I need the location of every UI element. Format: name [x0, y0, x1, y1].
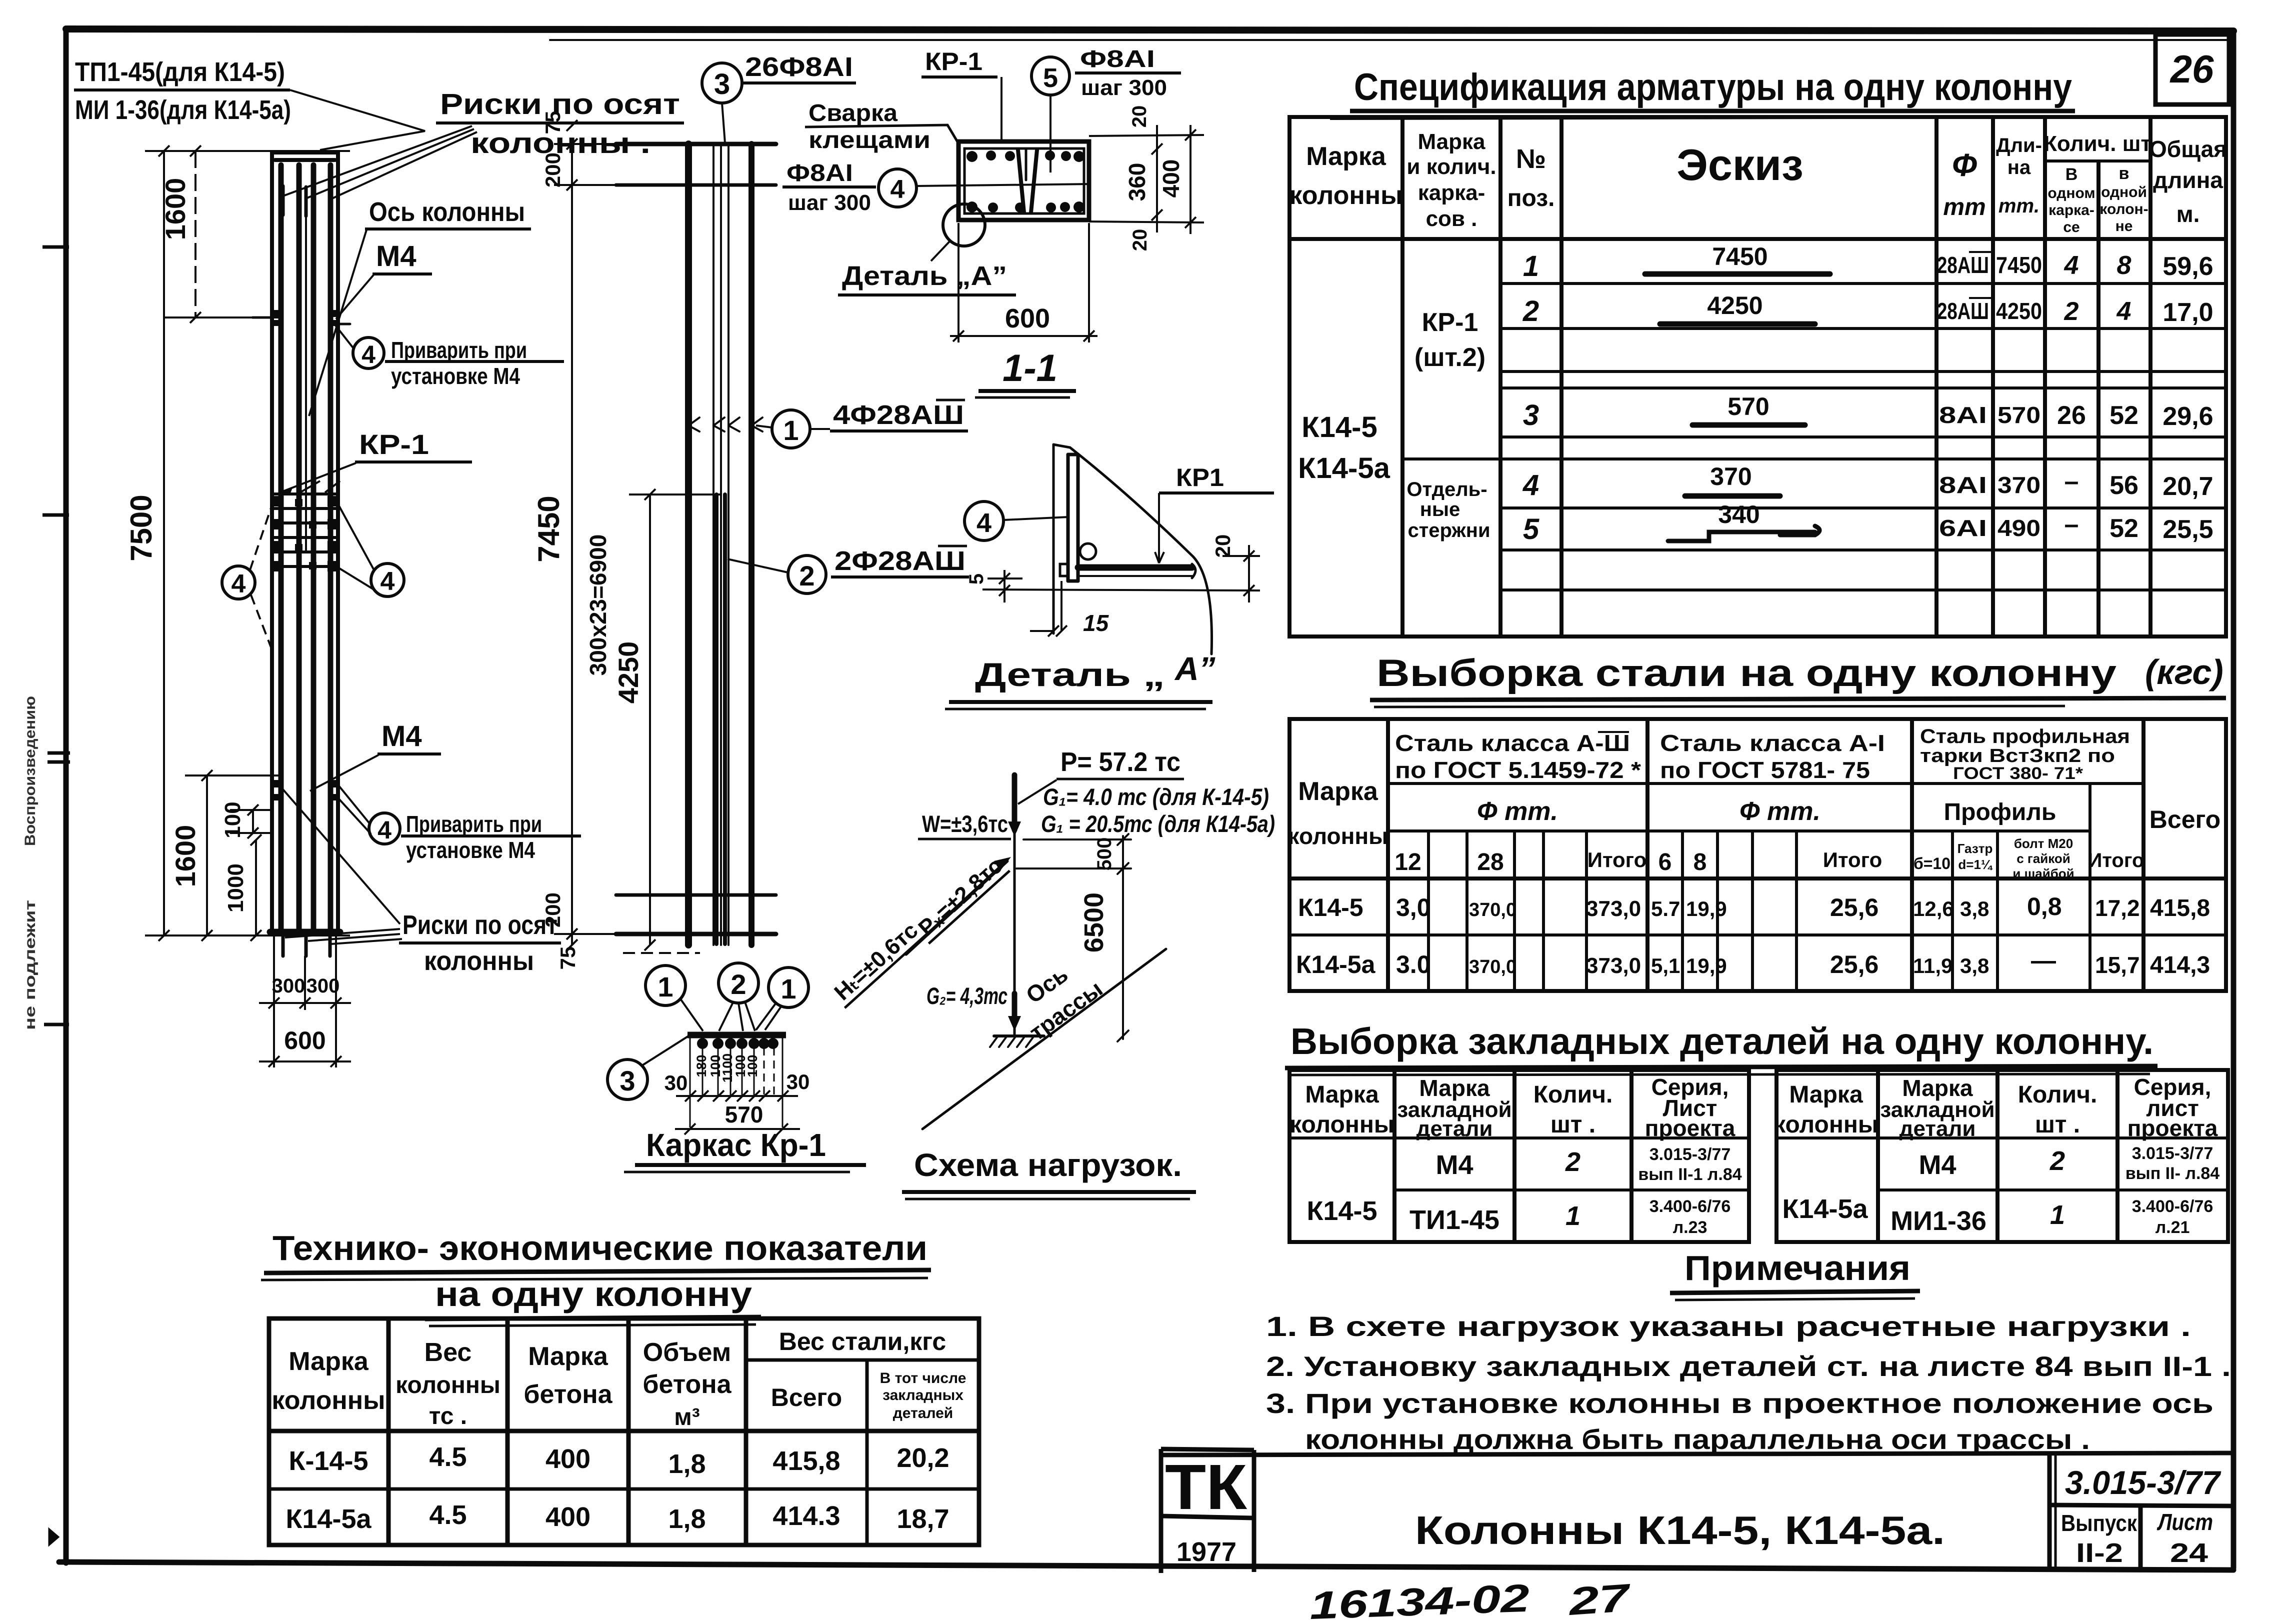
svg-text:8АI: 8АI: [1939, 472, 1987, 498]
column axis line: [305, 215, 307, 550]
svg-text:2: 2: [730, 968, 746, 1000]
svg-text:Объем: Объем: [643, 1338, 731, 1367]
svg-text:М4: М4: [1435, 1150, 1473, 1180]
svg-text:15: 15: [1083, 610, 1109, 636]
diameter / length / qty / total values: [1937, 251, 2213, 544]
svg-text:6: 6: [1658, 849, 1672, 875]
svg-text:4250: 4250: [1996, 298, 2042, 324]
svg-text:карка-: карка-: [1418, 180, 1485, 205]
svg-text:300: 300: [272, 975, 305, 997]
middle stirrup legs: [1018, 150, 1024, 212]
svg-text:М4: М4: [381, 720, 422, 752]
svg-text:570: 570: [725, 1101, 763, 1127]
diagonal Px/Ht arrow: [906, 861, 1007, 954]
svg-text:1: 1: [780, 973, 796, 1004]
middle stirrup package with (4) plates: [272, 494, 338, 566]
svg-text:поз.: поз.: [1507, 185, 1555, 211]
cage main bars pos.1: [685, 144, 692, 945]
top stirrup lines: [616, 142, 776, 146]
svg-text:Марка: Марка: [288, 1347, 369, 1376]
svg-text:11,9: 11,9: [1913, 954, 1952, 977]
svg-text:19,9: 19,9: [1686, 897, 1727, 920]
svg-text:карка-: карка-: [2048, 202, 2094, 218]
svg-text:бетона: бетона: [642, 1370, 731, 1399]
svg-text:Профиль: Профиль: [1944, 799, 2056, 825]
svg-text:20,2: 20,2: [896, 1443, 949, 1473]
svg-text:180: 180: [694, 1054, 709, 1077]
svg-text:КР-1: КР-1: [359, 428, 429, 460]
svg-text:и шайбой: и шайбой: [2012, 866, 2074, 881]
dimension 7500 (full height left): [145, 145, 350, 941]
svg-text:К14-5а: К14-5а: [285, 1504, 371, 1534]
svg-text:Марка: Марка: [1305, 1081, 1379, 1108]
svg-text:1977: 1977: [1176, 1537, 1236, 1567]
riski ticks below base: [283, 932, 330, 956]
svg-text:75: 75: [556, 946, 579, 970]
bar dots top/bottom: [966, 150, 1084, 212]
svg-text:Риски по осят: Риски по осят: [402, 910, 557, 940]
sketch bars in eskiz column: [1645, 274, 1830, 541]
right dimensions 20/360/400/20: [1089, 125, 1204, 234]
svg-text:18,7: 18,7: [896, 1504, 949, 1534]
KR1 bar welded to plate: [1078, 564, 1192, 571]
svg-text:Выборка закладных деталей на о: Выборка закладных деталей на одну колонн…: [1290, 1020, 2153, 1062]
svg-text:МИ1-36: МИ1-36: [1890, 1206, 1986, 1236]
label (3) leader: [607, 1036, 688, 1099]
svg-text:колонны: колонны: [1289, 181, 1402, 210]
svg-text:3.015-3/77: 3.015-3/77: [2132, 1144, 2213, 1163]
svg-text:4: 4: [2064, 251, 2079, 280]
dimension 1000: [250, 834, 261, 941]
bars pos.2 (4250 long): [714, 494, 718, 944]
svg-text:1,8: 1,8: [668, 1449, 705, 1479]
svg-text:3: 3: [1523, 399, 1539, 431]
svg-text:Марка: Марка: [1789, 1081, 1863, 1108]
svg-text:колонны: колонны: [1773, 1111, 1878, 1138]
svg-text:ные: ные: [1420, 498, 1460, 520]
svg-text:300: 300: [306, 975, 340, 997]
svg-text:1: 1: [657, 971, 673, 1002]
svg-text:570: 570: [1997, 402, 2040, 428]
dimension 600 below section: [950, 223, 1097, 342]
svg-text:d=1¼: d=1¼: [1958, 857, 1993, 872]
svg-text:28АШ: 28АШ: [1937, 298, 1989, 324]
svg-text:М4: М4: [1918, 1150, 1956, 1180]
svg-text:Лист: Лист: [2156, 1509, 2213, 1535]
svg-text:Приварить при: Приварить при: [391, 337, 527, 363]
svg-text:4250: 4250: [612, 641, 644, 704]
svg-text:Сварка: Сварка: [808, 100, 897, 126]
label (4) privarit pri ustanovke M4 (upper): [332, 321, 564, 368]
svg-text:Приварить при: Приварить при: [406, 811, 542, 837]
svg-text:26: 26: [2169, 47, 2214, 91]
svg-text:30: 30: [786, 1070, 810, 1093]
svg-text:100: 100: [220, 801, 245, 838]
svg-text:414,3: 414,3: [2150, 952, 2210, 978]
svg-text:17,0: 17,0: [2162, 298, 2213, 327]
svg-text:400: 400: [1158, 159, 1184, 198]
svg-text:на одну колонну: на одну колонну: [435, 1274, 752, 1313]
svg-text:К14-5а: К14-5а: [1296, 950, 1376, 978]
svg-text:0,8: 0,8: [2027, 892, 2062, 920]
svg-text:20: 20: [1128, 105, 1150, 128]
svg-text:Деталь „: Деталь „: [975, 656, 1165, 693]
dimension 1600 (bottom left): [185, 770, 280, 941]
G2 arrow: [1012, 993, 1017, 1023]
svg-text:4Ф28АШ: 4Ф28АШ: [833, 400, 964, 430]
svg-text:Примечания: Примечания: [1684, 1248, 1910, 1287]
svg-text:одном: одном: [2047, 185, 2095, 201]
svg-text:вып II- л.84: вып II- л.84: [2125, 1164, 2220, 1183]
svg-text:с гайкой: с гайкой: [2016, 851, 2070, 866]
svg-text:ТП1-45(для К14-5): ТП1-45(для К14-5): [75, 57, 285, 87]
svg-text:детали: детали: [1416, 1116, 1493, 1141]
svg-text:2: 2: [2049, 1146, 2065, 1176]
dimension 7450: [554, 138, 625, 950]
svg-text:ТК: ТК: [1165, 1451, 1247, 1523]
svg-text:К14-5: К14-5: [1301, 411, 1377, 443]
specification table grid: [1289, 117, 2226, 636]
mid (4) circles with leaders: [222, 563, 404, 599]
svg-text:20: 20: [1129, 229, 1151, 251]
svg-text:3: 3: [619, 1065, 635, 1096]
svg-text:КР1: КР1: [1176, 463, 1224, 491]
svg-text:400: 400: [545, 1502, 590, 1532]
svg-text:52: 52: [2109, 514, 2138, 543]
svg-text:б=10: б=10: [1913, 854, 1950, 872]
svg-text:490: 490: [1997, 515, 2040, 541]
svg-text:3: 3: [714, 68, 730, 100]
svg-text:29,6: 29,6: [2162, 402, 2213, 431]
svg-text:3. При установке колонны в пр: 3. При установке колонны в проектное пол…: [1266, 1387, 2213, 1419]
svg-text:не: не: [2115, 218, 2133, 234]
svg-text:по ГОСТ 5.1459-72 *: по ГОСТ 5.1459-72 *: [1395, 757, 1641, 783]
svg-text:4: 4: [976, 508, 991, 538]
svg-text:8АI: 8АI: [1939, 402, 1987, 428]
svg-text:G₁ = 20.5тс (для К14-5а): G₁ = 20.5тс (для К14-5а): [1041, 810, 1275, 837]
svg-text:по ГОСТ 5781- 75: по ГОСТ 5781- 75: [1660, 757, 1870, 783]
svg-text:в: в: [2119, 164, 2129, 183]
svg-text:4: 4: [1522, 469, 1539, 501]
svg-text:Каркас Кр-1: Каркас Кр-1: [646, 1127, 826, 1163]
svg-text:17,2: 17,2: [2095, 895, 2140, 921]
svg-text:Колич.: Колич.: [1533, 1081, 1613, 1108]
svg-text:2: 2: [1565, 1147, 1580, 1177]
svg-text:100: 100: [745, 1054, 760, 1077]
svg-text:2: 2: [799, 560, 814, 591]
svg-text:4: 4: [377, 816, 391, 844]
svg-text:3.0: 3.0: [1396, 950, 1431, 978]
svg-text:G₁= 4.0 тс (для К-14-5): G₁= 4.0 тс (для К-14-5): [1043, 783, 1269, 810]
svg-text:Ф mm.: Ф mm.: [1739, 797, 1820, 826]
svg-text:59,6: 59,6: [2162, 252, 2213, 281]
svg-text:12: 12: [1394, 849, 1421, 875]
svg-text:болт М20: болт М20: [2014, 836, 2073, 851]
svg-text:8: 8: [2117, 251, 2131, 280]
svg-text:52: 52: [2109, 401, 2138, 430]
svg-text:К14-5а: К14-5а: [1298, 452, 1390, 484]
dimension 75 / 200 (top): [554, 120, 625, 190]
svg-text:500: 500: [1093, 837, 1115, 871]
tiny 100 spacing dims: [694, 1053, 760, 1083]
dimension 100: [230, 804, 272, 838]
svg-text:деталей: деталей: [893, 1405, 953, 1421]
svg-text:30: 30: [664, 1071, 688, 1094]
riski ticks at column top: [283, 186, 330, 216]
label (2) 2F28AIII: [727, 555, 826, 593]
svg-text:3.015-3/77: 3.015-3/77: [2065, 1464, 2221, 1501]
ground: [994, 1034, 1044, 1037]
dimension 1600 (top left): [145, 145, 350, 323]
svg-text:не подлежит: не подлежит: [22, 900, 38, 1030]
svg-text:4.5: 4.5: [429, 1500, 466, 1530]
dimension 5 (detail): [987, 570, 1022, 602]
svg-text:3.400-6/76: 3.400-6/76: [1649, 1197, 1731, 1216]
svg-text:400: 400: [545, 1444, 590, 1474]
svg-text:56: 56: [2109, 471, 2138, 500]
svg-text:600: 600: [1005, 303, 1050, 333]
svg-text:Сталь профильная: Сталь профильная: [1920, 725, 2130, 747]
lower embed M4 marks: [272, 780, 338, 800]
svg-text:клещами: клещами: [808, 127, 930, 153]
svg-text:колон-: колон-: [2099, 201, 2148, 217]
svg-text:1-1: 1-1: [1002, 347, 1057, 389]
svg-text:1: 1: [1565, 1201, 1580, 1231]
left margin faint stamp text: [22, 696, 38, 1030]
svg-text:К-14-5: К-14-5: [288, 1446, 368, 1476]
TEP table grid: [269, 1318, 979, 1545]
svg-text:Итого: Итого: [1587, 848, 1646, 871]
svg-text:Выборка стали на одну колонну: Выборка стали на одну колонну: [1376, 652, 2116, 694]
svg-text:5: 5: [965, 573, 987, 584]
svg-text:4: 4: [380, 567, 395, 596]
svg-text:2: 2: [1522, 295, 1539, 327]
svg-text:25,6: 25,6: [1830, 950, 1878, 978]
svg-text:Сталь класса А-I: Сталь класса А-I: [1660, 730, 1885, 756]
os trassy diagonal line: [922, 949, 1166, 1129]
svg-text:Технико- экономические показа: Технико- экономические показатели: [272, 1228, 927, 1267]
svg-text:24: 24: [2170, 1538, 2208, 1568]
svg-text:G₂= 4,3тс: G₂= 4,3тс: [926, 982, 1007, 1009]
svg-text:Сталь класса А-Ш: Сталь класса А-Ш: [1395, 730, 1630, 756]
svg-text:1. В схете нагрузок указаны ра: 1. В схете нагрузок указаны расчетные на…: [1266, 1310, 2191, 1342]
svg-text:Марка: Марка: [1298, 777, 1378, 806]
svg-text:К14-5а: К14-5а: [1782, 1194, 1868, 1224]
svg-text:шаг 300: шаг 300: [1081, 75, 1167, 100]
svg-text:колонны: колонны: [395, 1372, 500, 1398]
dimension 4250: [629, 489, 720, 950]
svg-text:Колич.: Колич.: [2018, 1081, 2097, 1108]
svg-text:Вес стали,кгс: Вес стали,кгс: [779, 1327, 946, 1355]
specification table data rows: [1522, 242, 1769, 545]
svg-text:4: 4: [361, 340, 375, 368]
svg-text:370,0: 370,0: [1469, 899, 1516, 920]
svg-text:(кгс): (кгс): [2145, 652, 2223, 691]
svg-text:mm.: mm.: [1998, 195, 2039, 217]
bottom stirrup lines: [616, 893, 776, 897]
svg-text:В: В: [2065, 165, 2078, 184]
svg-text:установке М4: установке М4: [406, 837, 535, 863]
svg-text:16134-02: 16134-02: [1309, 1576, 1530, 1624]
svg-text:Марка: Марка: [528, 1342, 608, 1371]
svg-text:3,0: 3,0: [1396, 893, 1431, 921]
label (3) 26F8AI: [702, 63, 856, 143]
svg-text:5: 5: [1043, 63, 1058, 93]
svg-text:26Ф8АI: 26Ф8АI: [745, 52, 853, 82]
svg-text:373,0: 373,0: [1586, 953, 1641, 978]
svg-text:тс .: тс .: [429, 1403, 467, 1429]
svg-text:К14-5: К14-5: [1306, 1196, 1377, 1226]
left margin tick marks: [42, 247, 70, 1543]
svg-text:6500: 6500: [1079, 892, 1109, 952]
svg-text:7450: 7450: [1712, 242, 1767, 270]
svg-text:7450: 7450: [532, 495, 565, 562]
svg-text:установке М4: установке М4: [391, 363, 520, 389]
svg-text:на: на: [2007, 156, 2031, 178]
frame bar with bar-end dots: [687, 1032, 786, 1038]
svg-text:1,8: 1,8: [668, 1504, 705, 1534]
svg-text:м.: м.: [2176, 201, 2200, 227]
TEP header texts: [271, 1327, 966, 1430]
svg-text:3,8: 3,8: [1960, 954, 1989, 977]
svg-text:2: 2: [2064, 297, 2079, 326]
svg-text:2Ф28АШ: 2Ф28АШ: [834, 546, 965, 576]
svg-text:1600: 1600: [169, 825, 201, 887]
svg-text:Общая: Общая: [2149, 136, 2227, 162]
svg-text:(шт.2): (шт.2): [1414, 343, 1485, 372]
svg-text:Воспроизведению: Воспроизведению: [22, 696, 38, 846]
svg-text:сов .: сов .: [1426, 206, 1477, 231]
svg-text:4250: 4250: [1707, 291, 1762, 319]
base thick line: [270, 929, 340, 935]
svg-text:1: 1: [783, 414, 798, 446]
svg-text:детали: детали: [1899, 1116, 1976, 1141]
svg-text:2. Установку закладных деталей: 2. Установку закладных деталей ст. на ли…: [1266, 1350, 2231, 1382]
svg-text:колонны должна быть паралле: колонны должна быть параллельна оси трас…: [1305, 1423, 2090, 1455]
svg-text:370,0: 370,0: [1469, 956, 1516, 977]
label (1) 4F28AIII: [756, 410, 830, 448]
embedded parts table right: [1776, 1070, 2228, 1242]
svg-text:28АШ: 28АШ: [1937, 252, 1989, 278]
svg-text:12,6: 12,6: [1913, 897, 1954, 920]
svg-text:Ф: Ф: [1952, 147, 1977, 183]
svg-text:1: 1: [2050, 1200, 2065, 1230]
svg-text:бетона: бетона: [523, 1380, 612, 1409]
svg-text:колонны: колонны: [1288, 823, 1388, 849]
thin stirrup legs: [712, 144, 714, 945]
top and mid horizontal lines: [1023, 838, 1131, 840]
svg-text:7500: 7500: [124, 494, 158, 561]
weld circle: [1080, 543, 1096, 559]
column axis with P arrow: [1013, 775, 1016, 1036]
svg-text:Ось колонны: Ось колонны: [369, 197, 525, 227]
svg-text:4: 4: [231, 569, 246, 598]
svg-text:373,0: 373,0: [1586, 896, 1641, 921]
svg-text:20,7: 20,7: [2162, 472, 2213, 501]
svg-text:МИ 1-36(для К14-5а): МИ 1-36(для К14-5а): [75, 95, 291, 125]
svg-text:6АI: 6АI: [1939, 515, 1987, 541]
svg-text:Эскиз: Эскиз: [1676, 140, 1803, 189]
svg-text:колонны: колонны: [271, 1386, 385, 1415]
svg-text:Деталь „А”: Деталь „А”: [842, 261, 1007, 291]
svg-text:Газтр: Газтр: [1957, 841, 1993, 856]
svg-text:5.7: 5.7: [1651, 897, 1680, 920]
svg-text:шт .: шт .: [1550, 1111, 1595, 1138]
dim line with ticks: [676, 1090, 798, 1101]
svg-text:200: 200: [541, 892, 564, 927]
svg-text:19,9: 19,9: [1686, 954, 1727, 977]
svg-text:вып II-1 л.84: вып II-1 л.84: [1638, 1165, 1741, 1184]
svg-text:проекта: проекта: [2127, 1115, 2218, 1141]
svg-text:Вес: Вес: [424, 1338, 472, 1367]
svg-text:25,5: 25,5: [2162, 515, 2213, 544]
svg-text:л.23: л.23: [1673, 1218, 1707, 1237]
svg-text:колонны: колонны: [424, 946, 534, 976]
svg-text:се: се: [2063, 219, 2079, 235]
label (5) F8AI shag 300: [1031, 57, 1181, 172]
svg-text:3.400-6/76: 3.400-6/76: [2132, 1197, 2213, 1216]
svg-text:шаг 300: шаг 300: [788, 190, 871, 215]
steel table data rows: [1296, 892, 2210, 978]
right dim line: [1122, 836, 1124, 1039]
svg-text:5,1: 5,1: [1651, 954, 1680, 977]
svg-text:Ф8АI: Ф8АI: [786, 160, 853, 186]
svg-text:415,8: 415,8: [772, 1446, 840, 1476]
svg-text:Дли-: Дли-: [1996, 134, 2042, 156]
svg-text:В тот числе: В тот числе: [880, 1370, 966, 1386]
svg-text:1: 1: [1523, 250, 1539, 282]
svg-text:Ф mm.: Ф mm.: [1477, 797, 1558, 826]
svg-text:W=±3,6тс: W=±3,6тс: [922, 810, 1008, 837]
handwritten archive number: [1309, 1575, 1633, 1624]
svg-text:3,8: 3,8: [1960, 897, 1989, 920]
embed plate: [1066, 454, 1070, 581]
svg-text:А”: А”: [1174, 650, 1215, 687]
table header texts: [1289, 129, 2227, 235]
svg-text:mm: mm: [1943, 194, 1985, 220]
svg-text:7450: 7450: [1996, 252, 2042, 278]
svg-text:370: 370: [1997, 472, 2040, 498]
svg-text:—: —: [2031, 946, 2056, 974]
svg-text:л.21: л.21: [2155, 1218, 2190, 1237]
svg-text:Колич. шт: Колич. шт: [2043, 131, 2151, 156]
svg-text:Колонны К14-5, К14-5а.: Колонны К14-5, К14-5а.: [1415, 1508, 1945, 1552]
svg-text:тарки ВстЗкп2 по: тарки ВстЗкп2 по: [1920, 745, 2115, 766]
svg-text:370: 370: [1710, 462, 1751, 490]
svg-text:проекта: проекта: [1645, 1115, 1735, 1141]
svg-text:длина: длина: [2153, 167, 2223, 193]
svg-text:Всего: Всего: [2149, 805, 2220, 833]
svg-text:25,6: 25,6: [1830, 893, 1878, 921]
svg-text:4.5: 4.5: [429, 1442, 466, 1472]
svg-text:КР-1: КР-1: [1422, 308, 1478, 337]
svg-text:М4: М4: [376, 240, 416, 272]
svg-text:5: 5: [1523, 513, 1539, 545]
svg-text:Итого: Итого: [2088, 849, 2144, 871]
svg-text:Схема нагрузок.: Схема нагрузок.: [914, 1147, 1182, 1183]
bottom width dimensions 300/300/600: [259, 935, 351, 1067]
sheet number box 26: [2155, 34, 2229, 104]
svg-text:27: 27: [1566, 1575, 1633, 1623]
svg-text:15,7: 15,7: [2095, 952, 2140, 978]
svg-text:28: 28: [1477, 849, 1503, 875]
svg-text:1000: 1000: [223, 863, 248, 912]
arrows on bars for pos.1 leader: [688, 417, 762, 431]
svg-text:414.3: 414.3: [772, 1501, 840, 1531]
label (4) privarit pri ustanovke M4 (lower): [339, 786, 581, 844]
svg-text:Ф8АI: Ф8АI: [1080, 46, 1155, 72]
dimension 15 (detail): [1030, 581, 1067, 636]
